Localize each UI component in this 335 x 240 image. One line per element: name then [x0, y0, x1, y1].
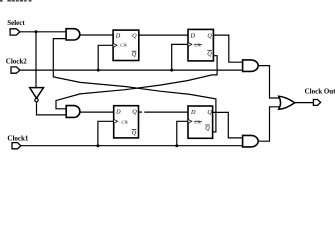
- wire inverter out to AND G2: [37, 102, 67, 115]
- node Clock2/FF2 clk junction: [170, 69, 173, 72]
- node Clock2/FF1 clk junction: [97, 69, 100, 72]
- svg-text:Clock2: Clock2: [6, 58, 28, 66]
- svg-text:Q: Q: [207, 109, 212, 116]
- wire FF4 Q to AND G4: [213, 112, 243, 137]
- wire feedback A into G2 from FF2 Qbar: [56, 56, 217, 109]
- input port Select: [7, 19, 25, 35]
- inverter U5: [30, 88, 44, 102]
- svg-text:Clk: Clk: [194, 42, 201, 47]
- svg-text:Q: Q: [132, 51, 137, 58]
- wire Select down to inverter: [35, 32, 37, 88]
- AND gate G3: [243, 60, 259, 72]
- wire FF1 Q to FF2 D: [139, 34, 188, 36]
- svg-text:Q: Q: [132, 33, 137, 40]
- wire G3 out to OR: [258, 66, 281, 98]
- wire G4 out to OR: [258, 107, 281, 141]
- input port Clock2: [6, 58, 28, 74]
- wire G2 out to FF3 D: [80, 111, 114, 113]
- wire FF1 clk riser: [98, 45, 113, 70]
- D flip-flop U2: [188, 29, 213, 61]
- wire OR out to Clock Out port: [295, 102, 314, 104]
- svg-text:Clk: Clk: [194, 120, 201, 125]
- wire G1 out to FF1 D: [80, 34, 113, 36]
- D flip-flop U3: [114, 106, 139, 138]
- svg-text:Clock Out: Clock Out: [305, 88, 335, 96]
- svg-text:Q: Q: [132, 129, 137, 136]
- node Clock1/FF4 clk junction: [175, 144, 178, 147]
- wire Select to AND G1: [20, 31, 67, 33]
- wire FF3 clk riser: [98, 121, 114, 145]
- wire FF3 Q to FF4 D: [139, 111, 143, 113]
- AND gate G1: [66, 29, 80, 40]
- wire Clock2 rail: [20, 69, 243, 71]
- svg-text:Q: Q: [207, 50, 212, 57]
- svg-text:Select: Select: [7, 19, 25, 27]
- svg-text:D: D: [115, 33, 121, 40]
- svg-text:D: D: [190, 33, 196, 40]
- svg-text:D: D: [115, 109, 121, 116]
- svg-text:Q: Q: [205, 125, 210, 132]
- D flip-flop U4: [188, 106, 213, 138]
- svg-text:Clk: Clk: [120, 43, 127, 48]
- wire feedback B into G1 from FF4 Qbar: [53, 39, 216, 132]
- svg-text:Q: Q: [132, 109, 137, 116]
- wire FF2 clk riser: [172, 44, 188, 70]
- node select branch junction: [35, 30, 38, 33]
- output port Clock Out: [305, 88, 335, 106]
- wire Clock1 rail: [21, 145, 243, 147]
- node Clock1/FF3 clk junction: [96, 144, 99, 147]
- OR gate G5: [279, 96, 295, 109]
- svg-text:D: D: [190, 109, 196, 116]
- svg-text:Q: Q: [207, 33, 212, 40]
- svg-text:Clock1: Clock1: [7, 135, 29, 143]
- svg-text:Clk: Clk: [121, 120, 128, 125]
- wire FF2 Q to AND G3: [213, 35, 242, 62]
- AND gate G4: [243, 135, 259, 147]
- D flip-flop U1: [113, 30, 139, 60]
- AND gate G2: [66, 106, 80, 118]
- input port Clock1: [7, 135, 29, 149]
- wire FF4 clk riser: [177, 121, 188, 145]
- cropped caption text fragments: [0, 0, 32, 2]
